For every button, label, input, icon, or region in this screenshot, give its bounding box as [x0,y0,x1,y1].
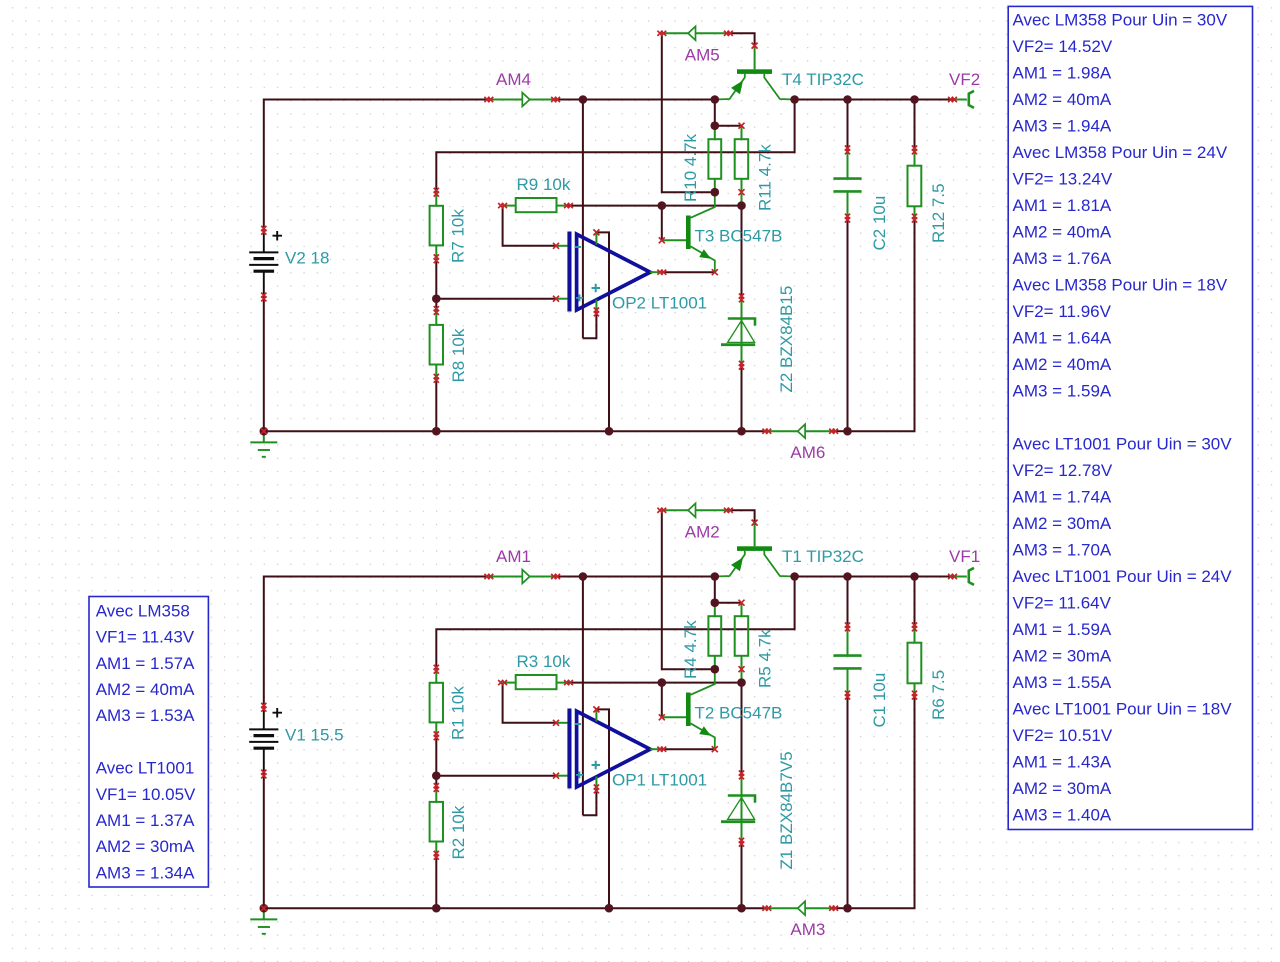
svg-text:T4 TIP32C: T4 TIP32C [782,70,864,89]
svg-text:R4 4.7k: R4 4.7k [681,620,700,679]
resistor R4 4.7k [708,603,721,670]
label AM2 [685,522,720,541]
label Z1 BZX84B7V5 [777,751,796,869]
wire [583,312,597,338]
svg-text:AM1 = 1.74A: AM1 = 1.74A [1013,487,1112,506]
resistor R7 10k [430,192,443,259]
svg-text:VF1: VF1 [949,547,980,566]
label R3 10k [517,652,571,671]
label VF2 [949,70,980,89]
wire [662,748,715,750]
resistor R10 4.7k [708,126,721,193]
svg-text:C1 10u: C1 10u [870,673,889,728]
svg-text:VF2= 12.78V: VF2= 12.78V [1013,461,1113,480]
wire [914,577,916,627]
wire [714,100,716,126]
capacitor C1 10u [833,627,861,695]
wire [661,206,663,241]
resistor R5 4.7k [735,603,749,670]
label V2 18 [285,249,329,268]
label T4 TIP32C [782,70,864,89]
output terminal VF2 [953,91,975,108]
svg-text:R6 7.5: R6 7.5 [929,670,948,720]
wire [264,100,489,231]
label VF1 [949,547,980,566]
wire [569,205,742,207]
svg-text:AM5: AM5 [685,45,720,64]
output terminal VF1 [953,568,975,585]
wire [436,577,794,670]
svg-text:C2 10u: C2 10u [870,196,889,251]
wire [848,218,915,431]
pin markers [261,31,957,435]
svg-text:VF2= 11.96V: VF2= 11.96V [1013,302,1112,321]
wire [556,99,712,101]
ammeter AM6 [767,424,834,438]
wire [741,669,743,682]
svg-text:Avec LT1001 Pour Uin = 18V: Avec LT1001 Pour Uin = 18V [1013,699,1233,718]
op-amp OP2 LT1001 [556,232,662,312]
battery V2 18 [249,230,282,297]
svg-text:Avec LT1001 Pour Uin = 24V: Avec LT1001 Pour Uin = 24V [1013,567,1233,586]
svg-text:AM6: AM6 [790,443,825,462]
svg-text:Avec LM358 Pour Uin = 24V: Avec LM358 Pour Uin = 24V [1013,143,1228,162]
pin markers [261,508,957,912]
svg-text:VF2= 14.52V: VF2= 14.52V [1013,37,1113,56]
wire [741,683,743,775]
wire [795,576,953,578]
resistor R9 10k [503,198,569,212]
label AM5 [685,45,720,64]
svg-text:V2 18: V2 18 [285,249,329,268]
wire [742,907,848,909]
label T1 TIP32C [782,547,864,566]
wire [741,206,743,298]
ammeter AM2 [662,503,729,517]
wire [662,33,715,192]
wire [847,577,849,909]
label R2 10k [449,805,468,859]
wire [728,510,754,522]
svg-text:VF2= 13.24V: VF2= 13.24V [1013,169,1113,188]
svg-text:AM1: AM1 [496,547,531,566]
label R4 4.7k [681,620,700,679]
wire [714,577,716,603]
annotation box right [1008,6,1252,829]
svg-text:AM1 = 1.81A: AM1 = 1.81A [1013,196,1112,215]
svg-text:Avec LM358: Avec LM358 [96,601,190,620]
annotation box left [89,597,208,888]
svg-text:VF2= 11.64V: VF2= 11.64V [1013,593,1112,612]
wire [263,297,265,431]
svg-text:Avec LT1001 Pour Uin = 30V: Avec LT1001 Pour Uin = 30V [1013,434,1233,453]
resistor R11 4.7k [735,126,749,193]
wire [715,602,742,604]
wire [741,192,743,205]
label V1 15.5 [285,726,344,745]
svg-text:AM1 = 1.64A: AM1 = 1.64A [1013,328,1112,347]
wire [435,299,437,432]
svg-text:VF1= 10.05V: VF1= 10.05V [96,785,196,804]
resistor R3 10k [503,675,569,689]
wire [503,683,556,723]
label OP1 LT1001 [612,771,707,790]
svg-text:Z2 BZX84B15: Z2 BZX84B15 [777,286,796,393]
wire [264,430,742,432]
wire [847,100,849,432]
svg-text:AM3 = 1.53A: AM3 = 1.53A [96,706,195,725]
wire [503,206,556,246]
label AM6 [790,443,825,462]
transistor T3 BC547B [662,192,715,272]
svg-text:AM3 = 1.59A: AM3 = 1.59A [1013,381,1112,400]
wire [264,907,742,909]
wire [596,709,609,908]
svg-text:AM2 = 40mA: AM2 = 40mA [1013,355,1112,374]
wire [596,232,609,431]
label T2 BC547B [695,704,783,723]
svg-text:AM3 = 1.40A: AM3 = 1.40A [1013,805,1112,824]
svg-text:T3 BC547B: T3 BC547B [695,227,783,246]
svg-text:AM3 = 1.76A: AM3 = 1.76A [1013,249,1112,268]
zener diode Z1 BZX84B7V5 [721,775,755,842]
op-amp OP1 LT1001 [556,709,662,789]
wire [582,100,584,339]
wire [728,33,754,45]
wire [742,430,848,432]
transistor T4 TIP32C [715,46,795,100]
svg-text:AM3 = 1.94A: AM3 = 1.94A [1013,116,1112,135]
svg-text:VF2= 10.51V: VF2= 10.51V [1013,726,1113,745]
wire [715,125,742,127]
svg-text:AM2: AM2 [685,522,720,541]
label C1 10u [870,673,889,728]
svg-text:OP1 LT1001: OP1 LT1001 [612,771,707,790]
resistor R6 7.5 [908,627,922,695]
label T3 BC547B [695,227,783,246]
svg-text:R12 7.5: R12 7.5 [929,183,948,243]
wire [583,789,597,815]
resistor R1 10k [430,669,443,736]
svg-text:AM1 = 1.43A: AM1 = 1.43A [1013,752,1112,771]
svg-text:AM3 = 1.55A: AM3 = 1.55A [1013,673,1112,692]
wire [264,577,489,708]
label R9 10k [517,175,571,194]
label R7 10k [449,209,468,263]
svg-text:R2 10k: R2 10k [449,805,468,859]
wire [662,510,715,669]
svg-text:R10 4.7k: R10 4.7k [681,133,700,202]
wire [435,736,437,776]
svg-text:Avec LM358 Pour Uin = 18V: Avec LM358 Pour Uin = 18V [1013,275,1228,294]
wire [436,298,556,300]
wire [436,775,556,777]
svg-text:AM1 = 1.57A: AM1 = 1.57A [96,654,195,673]
svg-text:AM2 = 30mA: AM2 = 30mA [1013,646,1112,665]
ammeter AM4 [489,93,556,107]
svg-text:AM1 = 1.37A: AM1 = 1.37A [96,811,195,830]
svg-text:T2 BC547B: T2 BC547B [695,704,783,723]
label AM1 [496,547,531,566]
zener diode Z2 BZX84B15 [721,298,755,365]
label R12 7.5 [929,183,948,243]
label R5 4.7k [755,629,774,688]
label R8 10k [449,328,468,382]
svg-text:AM1 = 1.59A: AM1 = 1.59A [1013,620,1112,639]
label AM4 [496,70,531,89]
label R10 4.7k [681,133,700,202]
svg-text:AM2 = 30mA: AM2 = 30mA [96,837,195,856]
svg-text:R8 10k: R8 10k [449,328,468,382]
svg-text:R3 10k: R3 10k [517,652,571,671]
junction dots [260,95,919,435]
svg-text:AM3 = 1.70A: AM3 = 1.70A [1013,540,1112,559]
wire [582,577,584,816]
transistor T1 TIP32C [715,523,795,577]
svg-text:Avec LT1001: Avec LT1001 [96,759,195,778]
svg-text:R5 4.7k: R5 4.7k [755,629,774,688]
wire [848,695,915,908]
svg-text:Z1 BZX84B7V5: Z1 BZX84B7V5 [777,751,796,869]
svg-text:Avec LM358 Pour Uin = 30V: Avec LM358 Pour Uin = 30V [1013,10,1228,29]
label R1 10k [449,686,468,740]
resistor R8 10k [430,311,443,379]
transistor T2 BC547B [662,669,715,749]
svg-text:R9 10k: R9 10k [517,175,571,194]
svg-text:AM2 = 30mA: AM2 = 30mA [1013,779,1112,798]
capacitor C2 10u [833,150,861,218]
svg-text:OP2 LT1001: OP2 LT1001 [612,294,707,313]
svg-text:AM1 = 1.98A: AM1 = 1.98A [1013,63,1112,82]
label AM3 [790,920,825,939]
svg-text:VF2: VF2 [949,70,980,89]
wire [661,683,663,718]
svg-text:AM2 = 40mA: AM2 = 40mA [1013,90,1112,109]
wire [662,271,715,273]
svg-text:AM4: AM4 [496,70,531,89]
svg-text:AM2 = 40mA: AM2 = 40mA [1013,222,1112,241]
label OP2 LT1001 [612,294,707,313]
svg-text:R7 10k: R7 10k [449,209,468,263]
junction dots [260,572,919,912]
label C2 10u [870,196,889,251]
wire [556,576,712,578]
svg-text:AM2 = 40mA: AM2 = 40mA [96,680,195,699]
ammeter AM1 [489,570,556,584]
label Z2 BZX84B15 [777,286,796,393]
svg-text:T1 TIP32C: T1 TIP32C [782,547,864,566]
svg-text:V1 15.5: V1 15.5 [285,726,344,745]
label R11 4.7k [755,144,774,211]
wire [263,774,265,908]
wire [741,365,743,431]
resistor R12 7.5 [908,150,922,218]
svg-text:AM3 = 1.34A: AM3 = 1.34A [96,863,195,882]
wire [741,842,743,908]
resistor R2 10k [430,788,443,856]
wire [435,259,437,299]
wire [795,99,953,101]
ammeter AM5 [662,26,729,40]
ground [250,908,277,934]
battery V1 15.5 [249,707,282,774]
svg-text:R1 10k: R1 10k [449,686,468,740]
ammeter AM3 [767,901,834,915]
wire [436,100,794,193]
svg-text:R11 4.7k: R11 4.7k [755,144,774,211]
ground [250,431,277,457]
svg-text:VF1= 11.43V: VF1= 11.43V [96,628,195,647]
svg-text:AM2 = 30mA: AM2 = 30mA [1013,514,1112,533]
wire [914,100,916,150]
label R6 7.5 [929,670,948,720]
wire [435,776,437,909]
wire [569,682,742,684]
svg-text:AM3: AM3 [790,920,825,939]
